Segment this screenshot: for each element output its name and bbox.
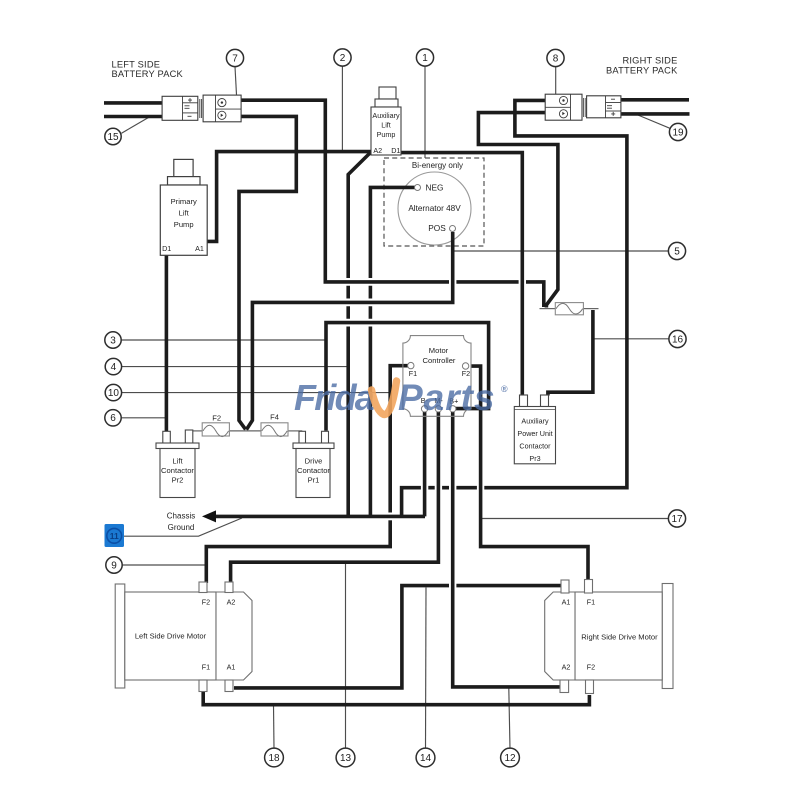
svg-text:BATTERY PACK: BATTERY PACK <box>112 69 184 79</box>
svg-text:6: 6 <box>110 413 116 424</box>
svg-text:Lift: Lift <box>172 457 183 466</box>
svg-text:Contactor: Contactor <box>519 442 551 451</box>
svg-text:®: ® <box>501 384 508 394</box>
svg-text:7: 7 <box>232 53 238 64</box>
svg-text:Motor: Motor <box>429 346 449 355</box>
svg-text:Lift: Lift <box>381 121 391 130</box>
svg-text:19: 19 <box>672 127 684 138</box>
svg-text:4: 4 <box>111 362 117 373</box>
svg-text:Pump: Pump <box>377 130 396 139</box>
svg-text:NEG: NEG <box>426 183 444 193</box>
svg-text:LEFT SIDE: LEFT SIDE <box>112 59 161 69</box>
svg-text:A1: A1 <box>227 663 236 672</box>
svg-text:Controller: Controller <box>423 356 456 365</box>
svg-text:15: 15 <box>107 132 119 143</box>
svg-text:D1: D1 <box>391 146 400 155</box>
svg-text:14: 14 <box>420 753 432 764</box>
svg-text:1: 1 <box>422 53 428 64</box>
svg-text:D1: D1 <box>162 244 171 253</box>
svg-text:Ground: Ground <box>168 523 195 532</box>
svg-text:8: 8 <box>553 53 559 64</box>
svg-text:Parts: Parts <box>398 377 496 418</box>
svg-text:Contactor: Contactor <box>161 466 194 475</box>
svg-text:13: 13 <box>340 753 352 764</box>
svg-text:F2: F2 <box>202 598 210 607</box>
svg-text:17: 17 <box>671 514 683 525</box>
svg-text:Bi-energy only: Bi-energy only <box>412 161 463 170</box>
svg-text:Contactor: Contactor <box>297 466 330 475</box>
svg-text:2: 2 <box>340 53 346 64</box>
svg-text:Alternator 48V: Alternator 48V <box>408 204 461 213</box>
svg-text:Right Side Drive Motor: Right Side Drive Motor <box>581 633 658 642</box>
svg-text:POS: POS <box>428 223 446 233</box>
svg-text:Drive: Drive <box>305 457 323 466</box>
svg-text:F1: F1 <box>587 598 595 607</box>
svg-text:F1: F1 <box>202 663 210 672</box>
svg-text:12: 12 <box>504 753 516 764</box>
svg-text:Auxiliary: Auxiliary <box>521 417 549 426</box>
svg-text:16: 16 <box>672 334 684 345</box>
svg-text:5: 5 <box>674 246 680 257</box>
svg-text:Lift: Lift <box>179 209 190 218</box>
svg-text:18: 18 <box>268 753 280 764</box>
svg-text:A1: A1 <box>195 244 204 253</box>
svg-text:F2: F2 <box>587 663 595 672</box>
svg-text:F4: F4 <box>270 413 279 422</box>
svg-text:11: 11 <box>110 531 119 541</box>
svg-text:BATTERY PACK: BATTERY PACK <box>606 66 678 76</box>
svg-text:Frida: Frida <box>294 377 374 418</box>
svg-text:Pr1: Pr1 <box>308 476 320 485</box>
svg-text:9: 9 <box>111 560 117 571</box>
svg-text:Auxiliary: Auxiliary <box>372 111 400 120</box>
svg-text:A2: A2 <box>227 598 236 607</box>
svg-text:10: 10 <box>108 388 120 399</box>
svg-text:3: 3 <box>110 335 116 346</box>
svg-text:A2: A2 <box>373 146 382 155</box>
svg-text:F2: F2 <box>212 414 221 423</box>
svg-text:Chassis: Chassis <box>167 512 195 521</box>
svg-text:A2: A2 <box>562 663 571 672</box>
svg-text:A1: A1 <box>562 598 571 607</box>
svg-text:Pump: Pump <box>174 220 194 229</box>
svg-text:Power Unit: Power Unit <box>517 429 552 438</box>
svg-text:Primary: Primary <box>171 197 197 206</box>
svg-text:Pr3: Pr3 <box>529 454 540 463</box>
svg-text:Left Side Drive Motor: Left Side Drive Motor <box>135 632 207 641</box>
svg-text:RIGHT SIDE: RIGHT SIDE <box>622 56 677 66</box>
svg-text:Pr2: Pr2 <box>172 476 184 485</box>
